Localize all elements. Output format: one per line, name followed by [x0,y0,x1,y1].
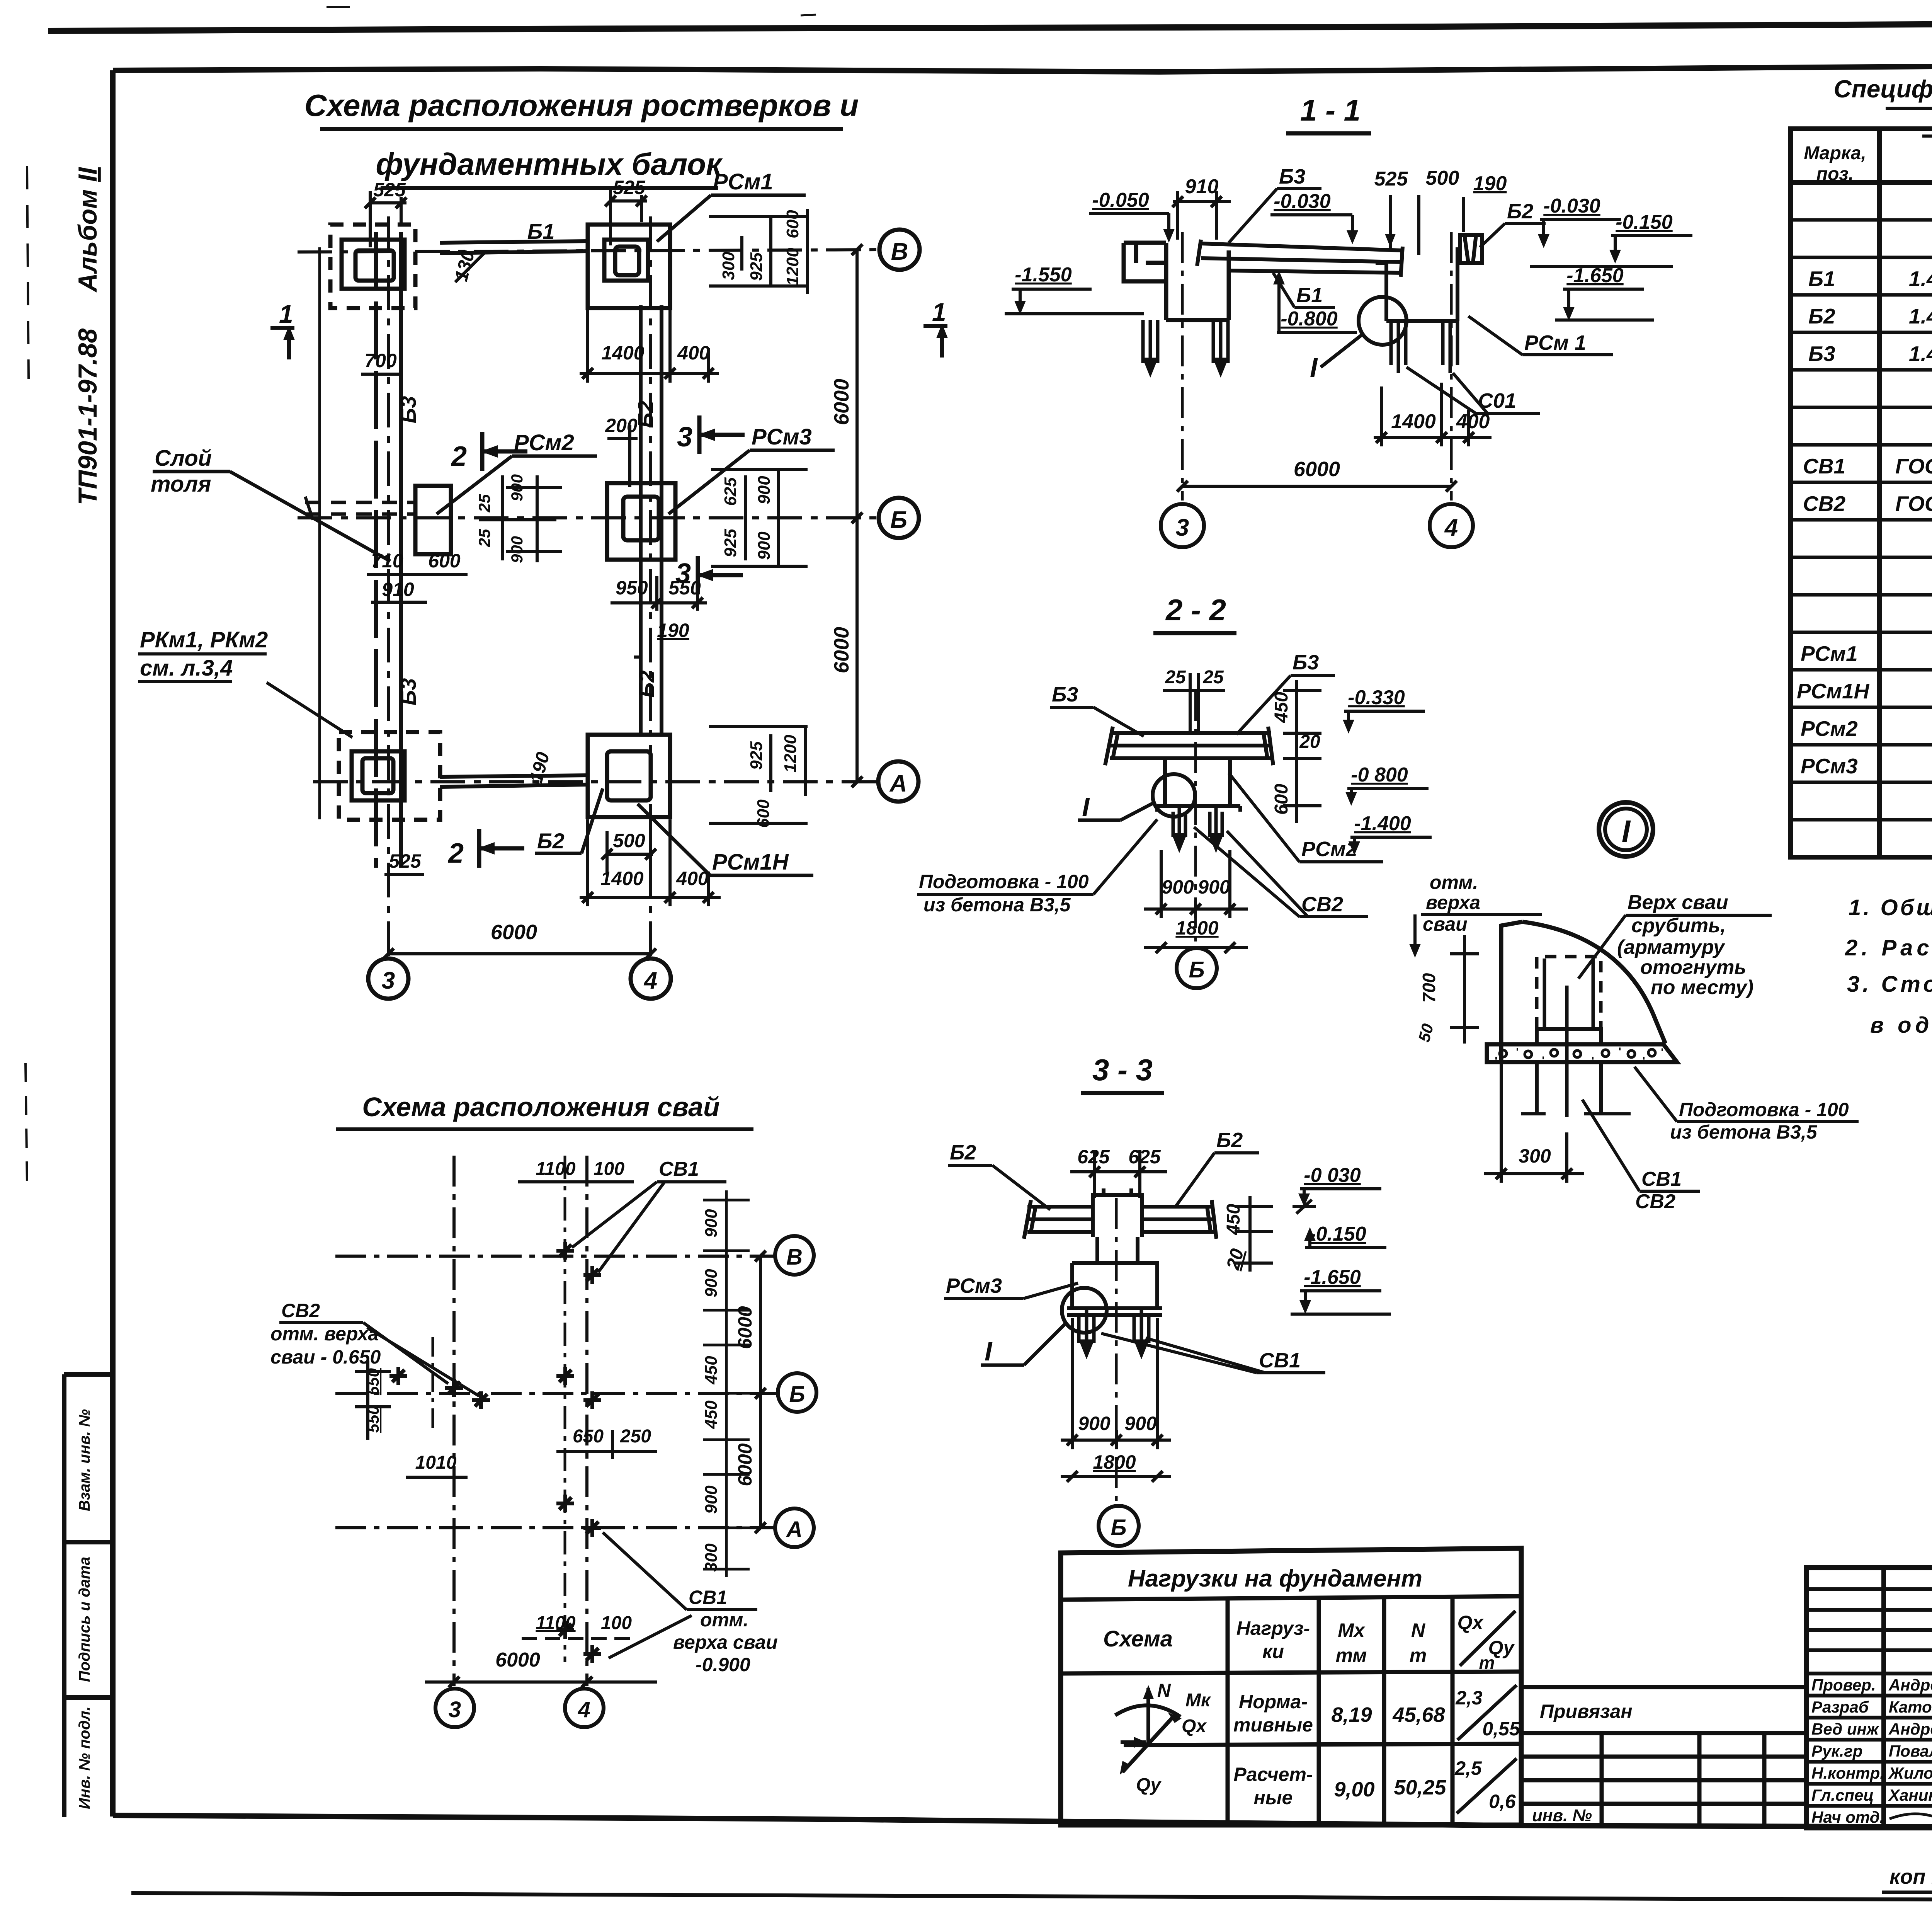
s11 right piles [1391,321,1458,373]
svg-text:Норма-: Норма- [1239,1691,1308,1713]
lp axis circle A [775,1508,814,1547]
section mark 3 top [677,415,745,454]
svg-text:6000: 6000 [734,1306,756,1349]
svg-text:СВ2: СВ2 [1803,492,1845,516]
svg-text:по месту): по месту) [1651,976,1753,999]
svg-text:600: 600 [428,550,461,572]
svg-text:Б2: Б2 [634,671,659,698]
s22 detail circle I [1153,774,1195,817]
svg-text:0,6: 0,6 [1489,1791,1516,1812]
title block main verticals [1884,1568,1932,1828]
pad at V-3 with dashed part [330,225,415,308]
loads compass diagram [1115,1688,1180,1772]
svg-text:3. Столбики под фундаментные: 3. Столбики под фундаментные балки выпол… [1847,972,1932,997]
section mark 2 top [451,432,527,472]
title block outer frame [1806,1568,1932,1828]
svg-text:Марка,: Марка, [1804,143,1866,163]
det cap outline with arc [1501,922,1665,1061]
svg-text:СВ2: СВ2 [1635,1190,1675,1213]
svg-text:т: т [1479,1653,1495,1673]
svg-text:4: 4 [1444,514,1458,541]
svg-text:300: 300 [719,252,738,280]
svg-text:700: 700 [364,350,397,371]
svg-text:6000: 6000 [1294,458,1340,481]
svg-text:-0.030: -0.030 [1274,190,1331,213]
beam B2 horizontal at A row [440,775,588,787]
tb row ved inzh [1811,1720,1932,1738]
svg-text:1400: 1400 [601,342,644,364]
det elevation arrow left [1413,914,1417,952]
pad RSm2 at B-3 [415,486,451,554]
lp axis circle V [775,1236,814,1275]
svg-text:Б: Б [789,1382,805,1407]
svg-text:Б1: Б1 [1296,284,1323,307]
svg-text:6000: 6000 [734,1443,756,1486]
specification table grid [1791,129,1932,857]
svg-text:Схема: Схема [1103,1626,1173,1651]
svg-text:СВ1: СВ1 [689,1587,727,1608]
svg-text:9,00: 9,00 [1334,1778,1374,1801]
svg-text:700: 700 [1419,973,1439,1003]
svg-text:2,5: 2,5 [1454,1757,1482,1779]
svg-text:РСм2: РСм2 [514,430,574,455]
svg-text:925: 925 [747,252,766,281]
s33 axis circle B [1099,1506,1139,1546]
svg-text:Подготовка - 100: Подготовка - 100 [1679,1099,1849,1120]
svg-text:коп Мошкова: коп Мошкова [1889,1865,1932,1888]
svg-text:Андреева: Андреева [1888,1720,1932,1738]
svg-text:710: 710 [371,550,403,572]
svg-text:190: 190 [526,750,554,785]
svg-text:250: 250 [620,1426,651,1447]
s11 detail circle I [1359,297,1406,345]
svg-text:400: 400 [677,342,710,364]
det bedding strip with stones [1487,1044,1677,1062]
svg-text:Б3: Б3 [396,396,420,424]
svg-text:Б2: Б2 [950,1141,976,1164]
svg-text:900: 900 [702,1485,721,1514]
svg-text:400: 400 [676,868,709,889]
outer top border line [48,22,1932,31]
svg-text:900: 900 [755,476,774,504]
svg-text:СВ1: СВ1 [1641,1168,1682,1190]
title block top small rows [1806,1589,1932,1650]
svg-text:I: I [1622,814,1631,848]
s33 detail circle I [1062,1288,1107,1333]
svg-text:600: 600 [783,210,802,238]
svg-text:1: 1 [932,298,946,326]
wall dashed band at B row [305,502,414,514]
svg-text:600: 600 [1271,784,1292,815]
svg-text:300: 300 [1519,1145,1551,1167]
svg-text:500: 500 [1426,167,1459,189]
svg-text:-1.550: -1.550 [1015,264,1072,286]
svg-text:50,25: 50,25 [1394,1776,1446,1799]
svg-text:Б3: Б3 [396,678,420,706]
svg-text:900: 900 [1198,876,1230,898]
svg-text:поз.: поз. [1816,164,1854,184]
svg-text:3: 3 [382,967,395,994]
svg-text:1100: 1100 [536,1159,576,1179]
svg-text:N: N [1411,1619,1425,1641]
svg-text:Мх: Мх [1338,1619,1366,1641]
s33 axis line [1115,1198,1118,1503]
svg-text:-0.030: -0.030 [1543,195,1600,217]
svg-text:Нагруз-: Нагруз- [1236,1617,1310,1639]
svg-text:450: 450 [702,1400,721,1429]
svg-text:650: 650 [573,1426,604,1447]
pad at A-3 dashed [339,732,440,820]
svg-text:отогнуть: отогнуть [1640,956,1746,979]
axis circle 3 [368,958,408,999]
spec row RSm1 [1801,642,1932,666]
svg-text:Б3: Б3 [1279,165,1305,188]
svg-text:1.415-1 вып. 1: 1.415-1 вып. 1 [1909,342,1932,366]
svg-text:3: 3 [449,1697,461,1722]
svg-text:I: I [985,1336,993,1366]
s11 axis line 4 [1450,232,1453,501]
svg-text:6000: 6000 [495,1649,540,1671]
svg-text:РСм2: РСм2 [1801,717,1858,741]
axis A line [313,780,878,783]
axis B line [298,516,878,519]
svg-text:625: 625 [1128,1146,1161,1168]
bottom long underline [131,1893,1932,1900]
svg-text:25: 25 [1165,667,1186,688]
pad RSm1N at A-4 [588,735,670,817]
svg-text:2: 2 [447,838,464,869]
svg-text:РСм 1: РСм 1 [1524,331,1586,354]
section mark 1 left [270,300,295,359]
svg-text:Б3: Б3 [1052,683,1078,706]
svg-text:1: 1 [279,300,293,328]
tb row ruk gr [1811,1742,1932,1760]
svg-text:500: 500 [613,830,645,851]
s33 slab right [1142,1200,1216,1239]
svg-text:Привязан: Привязан [1540,1701,1633,1722]
svg-text:Qx: Qx [1458,1612,1484,1633]
svg-text:Qy: Qy [1136,1775,1162,1795]
s11 beam B2 end section right [1460,235,1482,263]
lp axis 4 line [585,1156,588,1686]
svg-text:Спецификация к схеме располо: Спецификация к схеме расположения ростве… [1833,75,1932,103]
s11 right pier [1376,247,1458,321]
svg-text:45,68: 45,68 [1392,1703,1445,1726]
sheet inner frame [113,64,1932,72]
svg-text:РСм1: РСм1 [1801,642,1858,666]
svg-text:В: В [786,1245,803,1270]
svg-text:фундаментных балок: фундаментных балок [376,147,723,181]
svg-text:1.415-1 вып. 1: 1.415-1 вып. 1 [1909,304,1932,328]
svg-text:В: В [891,238,908,265]
svg-text:СВ2: СВ2 [1301,893,1343,916]
svg-text:-0.330: -0.330 [1348,686,1405,709]
svg-text:1100: 1100 [536,1613,576,1633]
det pile head block [1537,1029,1601,1044]
svg-text:сваи - 0.650: сваи - 0.650 [270,1346,381,1368]
svg-text:(арматуру: (арматуру [1617,936,1726,958]
svg-text:РСм1Н: РСм1Н [712,850,789,875]
svg-text:Расчет-: Расчет- [1233,1764,1313,1785]
svg-text:25: 25 [475,529,493,547]
svg-text:1010: 1010 [415,1452,457,1473]
svg-text:СВ2: СВ2 [281,1300,320,1321]
svg-text:6000: 6000 [830,379,853,425]
right small dim chain near V [719,210,802,286]
svg-text:Б: Б [1111,1515,1126,1540]
svg-text:Б2: Б2 [1216,1129,1243,1152]
svg-text:3: 3 [1176,514,1189,541]
det pile body below [1521,1062,1631,1114]
dims 25 25 900 900 rotated near B [475,474,526,563]
s22 axis line [1194,690,1197,945]
svg-text:Схема расположения ростверко: Схема расположения ростверков и [304,88,859,123]
svg-text:900: 900 [1124,1413,1157,1434]
lp axis A line [335,1526,774,1529]
svg-text:Н.контр.: Н.контр. [1811,1764,1884,1782]
svg-text:тивные: тивные [1233,1714,1313,1736]
svg-text:ТП901-1-97.88 Альбом II: ТП901-1-97.88 Альбом II [73,167,102,505]
svg-text:525: 525 [389,850,422,872]
svg-text:190: 190 [657,620,689,641]
svg-text:-0.800: -0.800 [1281,308,1338,330]
svg-text:1200: 1200 [781,735,800,773]
s11 axis circle 4 [1430,504,1473,547]
svg-text:верха сваи: верха сваи [673,1631,778,1653]
s22 pier [1157,758,1240,812]
left margin vertical text TP901-1-97.88 Album II [73,167,102,505]
det pile dashed outline [1537,957,1601,1029]
svg-text:1800: 1800 [1175,917,1218,939]
axis circle V [879,230,920,270]
svg-text:отм. верха: отм. верха [270,1323,379,1345]
s33 pier body [1067,1237,1162,1315]
svg-text:СВ1: СВ1 [659,1158,699,1180]
svg-text:Схема расположения свай: Схема расположения свай [362,1092,720,1122]
tb row gl spec [1811,1786,1932,1804]
svg-text:2 - 2: 2 - 2 [1165,593,1226,627]
svg-text:Б: Б [1189,957,1204,982]
svg-text:Нагрузки на фундамент: Нагрузки на фундамент [1128,1565,1422,1592]
lp pile marks [389,1242,601,1663]
svg-text:4: 4 [578,1697,590,1722]
right small dim chain near A [747,735,800,828]
spec row B3 [1808,342,1932,366]
svg-text:Гл.спец: Гл.спец [1811,1786,1874,1804]
pad RSm1 at V-4 [588,225,670,308]
spec row SV2 [1803,492,1932,516]
svg-text:Разраб: Разраб [1811,1698,1869,1716]
svg-text:РСм3: РСм3 [1801,754,1858,778]
svg-text:-0.150: -0.150 [1616,211,1673,233]
svg-text:СВ1: СВ1 [1803,454,1845,478]
svg-text:-1.650: -1.650 [1566,264,1624,287]
svg-text:Б1: Б1 [1808,267,1835,291]
detail I header circle [1599,802,1653,856]
svg-text:РСм3: РСм3 [752,424,812,449]
svg-text:тм: тм [1336,1645,1367,1666]
svg-text:1400: 1400 [600,868,643,889]
s33 center pier above slab [1093,1188,1142,1237]
svg-text:Взам. инв. №: Взам. инв. № [76,1409,93,1511]
s11 axis circle 3 [1161,504,1204,547]
svg-text:910: 910 [382,579,414,600]
s11 axis line 3 [1181,232,1184,501]
svg-text:-0.900: -0.900 [696,1654,750,1675]
svg-text:450: 450 [1271,692,1292,723]
svg-text:А: А [786,1517,803,1542]
loads table frame [1061,1548,1521,1825]
svg-text:РСм3: РСм3 [946,1274,1002,1297]
svg-text:3: 3 [677,422,692,453]
svg-text:-1.650: -1.650 [1304,1266,1361,1289]
svg-text:50: 50 [1415,1022,1437,1044]
tb row n kontr [1811,1764,1932,1782]
svg-text:Верх сваи: Верх сваи [1628,891,1728,914]
svg-text:N: N [1157,1680,1171,1701]
svg-text:Б3: Б3 [1808,342,1835,366]
svg-text:ГОСТ 19804.1-79*: ГОСТ 19804.1-79* [1895,454,1932,478]
svg-text:Катова: Катова [1889,1698,1932,1716]
spec row B2 [1808,304,1932,328]
lp pile line x=1120 short [432,1337,434,1430]
spec row RSm2 [1801,717,1932,741]
svg-text:ГОСТ 19804 1-79*: ГОСТ 19804 1-79* [1895,492,1932,516]
svg-text:Слой: Слой [155,446,212,471]
lp axis V line [335,1255,774,1258]
svg-text:Мк: Мк [1185,1690,1211,1711]
svg-text:Инв. № подл.: Инв. № подл. [76,1706,93,1809]
svg-text:толя: толя [151,472,211,497]
spec header texts [1804,141,1932,184]
svg-text:Провер.: Провер. [1811,1676,1876,1694]
building left edge line [318,247,321,819]
svg-text:из бетона В3,5: из бетона В3,5 [1670,1121,1818,1143]
svg-text:25: 25 [475,494,493,512]
svg-text:3 - 3: 3 - 3 [1092,1053,1153,1087]
svg-text:900: 900 [702,1209,721,1238]
svg-text:-0.150: -0.150 [1309,1223,1366,1245]
lp axis circle 3 [435,1689,474,1727]
svg-text:200: 200 [605,415,638,436]
lp axis circle 4 [565,1689,604,1727]
svg-text:А: А [889,770,907,797]
svg-text:1200: 1200 [783,248,802,286]
svg-text:Qx: Qx [1182,1716,1207,1737]
svg-text:Б2: Б2 [537,829,565,853]
svg-text:6000: 6000 [491,921,537,944]
s33 slab left [1024,1200,1093,1239]
svg-text:-0 800: -0 800 [1351,764,1408,786]
beam B3 vertical strip [376,232,401,868]
svg-text:100: 100 [601,1613,632,1633]
s11 left pier [1124,243,1229,320]
lp right dim chain small [702,1209,721,1572]
svg-text:отм.: отм. [700,1609,748,1631]
svg-text:Б3: Б3 [1293,651,1319,674]
svg-text:900: 900 [755,531,774,560]
svg-text:в одной опалубке с роствер: в одной опалубке с ростверками. [1870,1013,1932,1038]
svg-text:сваи: сваи [1423,913,1468,935]
axis circle A [878,761,918,802]
pad RSm3 at B-4 [607,483,675,560]
det pile inner lines [1544,958,1593,1117]
svg-text:525: 525 [1374,168,1408,190]
svg-text:Поваляева: Поваляева [1889,1742,1932,1760]
s22 axis circle B [1177,948,1217,988]
svg-text:-0.050: -0.050 [1092,189,1149,211]
svg-text:I: I [1310,352,1318,383]
axis 4 line [649,216,652,958]
svg-text:РСм1Н: РСм1Н [1797,679,1870,703]
svg-text:2: 2 [451,441,467,472]
svg-text:0,55: 0,55 [1482,1718,1520,1740]
svg-text:инв. №: инв. № [1532,1806,1592,1825]
svg-text:950: 950 [616,577,648,599]
svg-text:900: 900 [1162,876,1194,898]
title block row lines [1806,1674,1932,1806]
svg-text:ные: ные [1254,1787,1293,1808]
svg-text:РСм1: РСм1 [713,169,773,194]
spec row B1 [1808,267,1932,291]
svg-text:925: 925 [721,529,740,557]
svg-text:Б2: Б2 [1507,200,1533,223]
spec row RSm3 [1801,754,1932,778]
lp axis circle B [778,1373,816,1412]
lp axis 3 line [452,1156,456,1686]
svg-text:4: 4 [643,967,657,994]
section mark 1 right [923,298,948,358]
s11 beam slab [1197,240,1403,277]
svg-text:190: 190 [1473,172,1507,195]
svg-text:625: 625 [721,477,740,506]
svg-text:525: 525 [613,177,646,198]
scan artifact left margin [27,166,29,379]
spec row SV1 [1803,454,1932,478]
beam B2 vertical strip [641,305,662,736]
svg-text:900: 900 [1078,1413,1111,1434]
privyazan strip lines [1521,1687,1806,1825]
svg-text:РСм2: РСм2 [1301,838,1357,861]
axis V line [298,250,879,252]
axis circle B [879,498,919,538]
svg-text:Андреева: Андреева [1888,1676,1932,1694]
svg-text:900: 900 [508,536,526,563]
svg-text:450: 450 [702,1356,721,1385]
axis 3 line [387,216,390,958]
svg-text:I: I [1082,792,1090,822]
lp axis B line [335,1392,777,1395]
svg-text:Б2: Б2 [1808,304,1835,328]
svg-text:Подготовка - 100: Подготовка - 100 [919,871,1089,892]
svg-text:отм.: отм. [1430,872,1478,893]
svg-text:300: 300 [702,1543,721,1572]
lp pile line x=1462 [564,1156,566,1662]
svg-text:Нач отд.: Нач отд. [1811,1808,1884,1826]
s22 slab [1105,727,1273,765]
svg-text:Подпись и дата: Подпись и дата [76,1557,93,1682]
svg-text:100: 100 [594,1159,624,1179]
svg-text:Б: Б [890,507,907,533]
tb row nach otd [1811,1808,1932,1826]
svg-text:СВ1: СВ1 [1259,1349,1301,1372]
svg-text:400: 400 [1456,410,1490,433]
svg-text:срубить,: срубить, [1631,914,1726,937]
section mark 2 bottom [447,829,524,869]
svg-text:900: 900 [702,1269,721,1297]
svg-text:Вед инж: Вед инж [1811,1720,1879,1738]
svg-text:из бетона В3,5: из бетона В3,5 [923,894,1071,916]
